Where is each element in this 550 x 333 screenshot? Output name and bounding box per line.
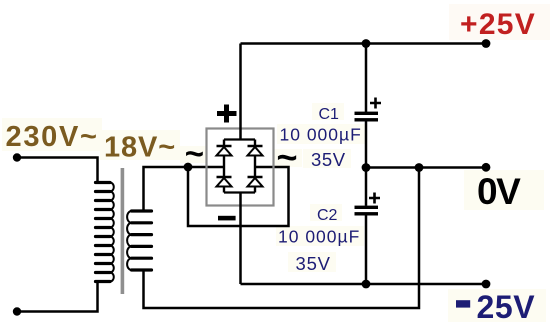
svg-text:10 000µF: 10 000µF	[278, 227, 360, 247]
bridge rectifier package outline	[207, 129, 274, 206]
svg-text:C2: C2	[317, 207, 338, 224]
svg-text:0V: 0V	[477, 171, 521, 212]
svg-text:35V: 35V	[296, 253, 331, 274]
transformer T1 primary winding	[96, 183, 114, 282]
transformer core	[121, 168, 125, 294]
svg-text:10 000µF: 10 000µF	[280, 125, 362, 145]
wire: AC loop around bridge	[188, 167, 289, 226]
diode D4 (bottom right)	[248, 167, 263, 193]
node: primary terminal bottom	[13, 307, 21, 315]
svg-text:~: ~	[185, 135, 204, 172]
transformer T1 secondary winding	[127, 211, 151, 270]
node: primary terminal top	[13, 153, 21, 161]
wire: bridge top connector	[224, 138, 255, 140]
label: bridge − output	[218, 216, 236, 221]
wire: bridge + lead	[239, 44, 242, 140]
svg-text:C1: C1	[319, 106, 340, 123]
diode D3 (bottom left)	[217, 167, 232, 193]
diode D2 (top right)	[248, 140, 263, 168]
svg-text:+25V: +25V	[460, 8, 536, 41]
wire: secondary top to bridge AC left	[144, 167, 225, 211]
capacitor C1	[355, 44, 382, 168]
svg-text:230V~: 230V~	[6, 121, 99, 153]
wire: +25V rail	[241, 42, 487, 45]
junction: C2 bottom	[362, 280, 371, 289]
wire: −25V rail	[241, 283, 487, 286]
wire: bridge bottom connector	[224, 191, 255, 193]
junction: C1 top	[362, 39, 371, 48]
label: bridge + output	[217, 105, 237, 123]
node: +25V terminal	[482, 39, 491, 48]
wire: primary top lead	[17, 158, 98, 183]
node: 0V terminal	[482, 163, 491, 172]
svg-text:18V~: 18V~	[104, 132, 176, 164]
svg-text:25V: 25V	[477, 289, 536, 325]
capacitor C2	[355, 168, 381, 285]
wire: bridge − lead	[239, 193, 242, 285]
wire: 0V rail	[366, 166, 486, 169]
node: −25V terminal	[482, 280, 491, 289]
diode D1 (top left)	[217, 140, 232, 168]
wire: secondary bottom lead to 0V junction	[144, 168, 420, 309]
net label: −25V	[456, 289, 535, 325]
junction: 0V / secondary return	[415, 163, 424, 172]
wire: primary bottom lead	[17, 282, 98, 312]
svg-text:35V: 35V	[311, 149, 346, 170]
junction: 0V / C1-C2 midpoint	[362, 163, 371, 172]
junction: secondary top AC node	[184, 163, 193, 172]
